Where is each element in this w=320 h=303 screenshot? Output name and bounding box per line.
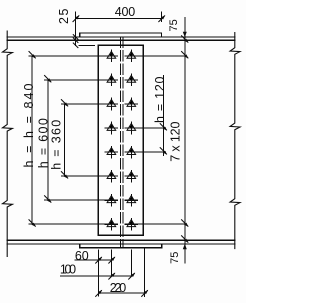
wire: bolt row 3 extension line [61,103,118,105]
svg-text:7 x 120: 7 x 120 [168,122,182,162]
wire: 400/25 left extension line [75,12,77,46]
dimension line h=600 [47,80,49,200]
bolt symbol col2 row1 [125,50,139,63]
wire: bolt row 2 extension line [44,79,118,81]
svg-text:100: 100 [60,263,76,277]
arrow dim h840 bottom end [29,219,36,227]
bolt symbol col2 row2 [125,74,139,87]
wire: bolt row 7 extension line [44,199,118,201]
bolt symbol col2 row7 [125,194,139,207]
arrow dim 75 bottom, mark at flange top [181,235,188,243]
wire: left beam cut line with breaks [3,31,13,257]
arrow dim 400 right end [158,15,165,22]
dimension line h=h=840 [31,56,33,224]
bolt symbol col2 row4 [125,122,139,135]
arrow dim h120 top end [160,123,167,131]
bolt symbol col2 row6 [125,170,139,183]
tick dim 25 tick at flange top [73,34,78,39]
wire: web plate left edge extension (60/220 dims) [97,250,99,297]
arrow dim 75 top, mark at flange underside [181,35,188,43]
arrow dim 100 left end [108,273,115,280]
arrow dim 7x120 top end [181,51,188,59]
bolt symbol col1 row7 [105,194,119,207]
arrow dim 7x120 bottom end [181,219,188,227]
wire: right bolt column extension (100 dim) [130,250,132,277]
arrow dim h360 top end [61,99,68,107]
arrow dim 220 left end [95,290,102,297]
tick dim 25 tick at web plate top level [73,43,78,48]
wire: bolt row 1 extension line right [125,55,187,57]
bolts: 2 columns x 8 rows [105,50,139,231]
arrow dim 60 left end [95,257,102,264]
wire: 400 right extension stub [160,12,162,22]
wire: bolt row 8 extension line left [29,223,118,225]
wire: bolt row 6 extension line [61,175,118,177]
svg-text:h = 120: h = 120 [153,76,167,123]
svg-text:75: 75 [168,19,180,31]
svg-text:220: 220 [110,281,126,295]
wire: right beam cut line with breaks [230,33,240,249]
wire: web plate right edge extension (220 dim) [143,248,145,297]
wire: bolt row 8 extension line right [125,223,187,225]
arrow dim 75 bottom, up arrow at flange underside [183,244,187,250]
bolt symbol col2 row8 [125,218,139,231]
tick dim 25 tick at flange bottom [73,38,78,43]
wire: bolt row 1 extension line left [29,55,118,57]
bolt symbol col2 row5 [125,146,139,159]
arrow dim h840 top end [29,51,36,59]
arrow dim 400 left end [73,15,80,22]
bottom cover plate [80,244,162,248]
bolt symbol col1 row2 [105,74,119,87]
dimension line h=120 [162,75,164,156]
svg-text:400: 400 [115,5,135,19]
svg-text:60: 60 [75,249,89,263]
arrow dim h600 top end [44,75,51,83]
arrows & ticks [29,15,189,297]
wire: bolt row 4 extension line [105,127,118,129]
bolt symbol col1 row1 [105,50,119,63]
arrow dim h120 bottom end [160,147,167,155]
dimension line 100 [60,275,131,277]
svg-text:75: 75 [169,252,181,264]
web splice plate [98,45,143,235]
bolt symbol col2 row3 [125,98,139,111]
bolt symbol col1 row6 [105,170,119,183]
dimension line 400 [76,18,162,20]
arrow dim 60 right end [108,257,115,264]
wire: left bolt column extension (60/100 dims) [110,250,112,277]
bolt symbol col1 row8 [105,218,119,231]
bottom flange (double line) [7,240,235,244]
svg-text:25: 25 [57,8,71,24]
dimension line 220 [98,292,144,294]
dimension line 7x120 and 75 (right) [184,17,186,264]
bolt symbol col1 row4 [105,122,119,135]
dimension graphics container [29,12,187,297]
arrow dim 220 right end [141,290,148,297]
dimension line h=360 [64,104,66,176]
wire: 25 extension segment (web plate top level) [78,44,95,46]
bolt symbol col1 row3 [105,98,119,111]
bolt symbol col1 row5 [105,146,119,159]
arrow dim h360 bottom end [61,171,68,179]
top flange (double line) [7,37,235,40]
top cover plate [80,33,162,37]
svg-text:h = 600: h = 600 [36,118,50,168]
svg-text:h = 360: h = 360 [49,120,63,170]
dimension line 60 [74,259,111,261]
wire: bolt row 5 extension line [105,151,118,153]
joint: double dashed line [120,37,122,248]
arrow dim 75 top, down arrow at flange [183,32,187,38]
arrow dim h600 bottom end [44,195,51,203]
arrow dim 100 right end [128,273,135,280]
